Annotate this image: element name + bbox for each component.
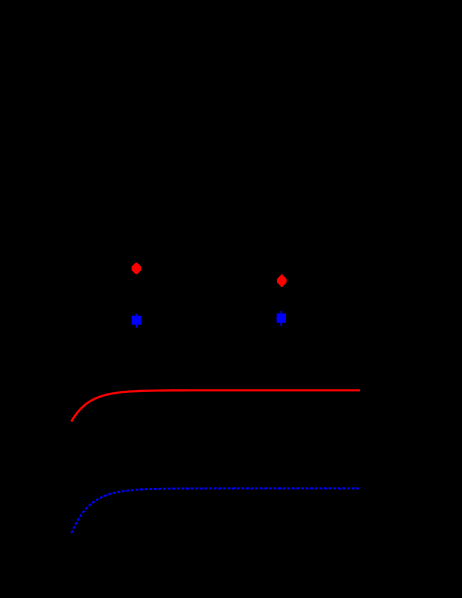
error bar of left red point <box>135 263 137 274</box>
blue square marker, right data point <box>277 313 286 322</box>
red curve (solid, upper plot) <box>71 390 360 421</box>
red diamond marker, right data point <box>278 276 287 285</box>
error bar of right red point <box>281 274 283 287</box>
error bar of right blue point <box>280 311 282 326</box>
blue curve (dashed, lower plot) <box>72 488 361 533</box>
red diamond marker, left data point <box>132 264 141 273</box>
blue square marker, left data point <box>132 316 141 325</box>
error bar of left blue point <box>135 314 137 328</box>
